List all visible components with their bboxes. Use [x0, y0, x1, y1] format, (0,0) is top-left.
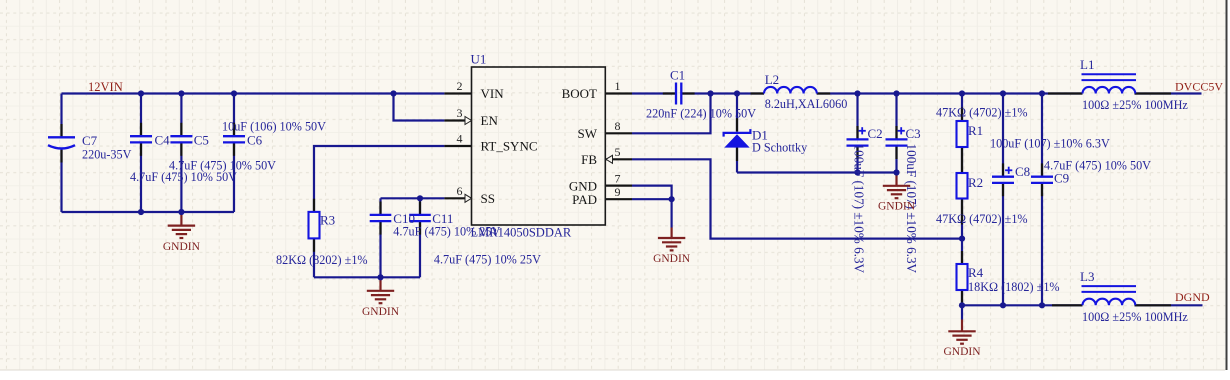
svg-text:C7: C7	[82, 133, 98, 148]
svg-text:C3: C3	[906, 126, 921, 141]
pin U1 BOOT 1	[605, 92, 632, 94]
svg-text:GNDIN: GNDIN	[653, 253, 691, 265]
resistor R2	[957, 173, 968, 199]
svg-text:6: 6	[457, 184, 463, 198]
pin U1 SS 6	[444, 197, 471, 199]
resistor R1	[957, 121, 968, 147]
wire C7 bottom drop	[60, 150, 62, 213]
wire C6 bottom drop	[233, 142, 235, 212]
pin U1 VIN 2	[444, 92, 471, 94]
capacitor C11	[409, 215, 431, 221]
wire PAD pin 9 run	[632, 198, 672, 200]
capacitor C8	[992, 177, 1014, 183]
capacitor C2 plus mark	[859, 127, 866, 134]
pin D1 cathode	[736, 118, 738, 131]
svg-text:FB: FB	[581, 152, 597, 167]
wire C10 top	[379, 198, 381, 214]
svg-text:9: 9	[615, 185, 621, 199]
pin C5 bottom	[180, 142, 182, 155]
svg-text:4.7uF (475) 10% 50V: 4.7uF (475) 10% 50V	[130, 170, 237, 184]
junction R3 ground	[377, 274, 383, 280]
op-amp U1 body	[472, 67, 606, 225]
capacitor C8 plus mark	[1005, 167, 1012, 174]
pin U1 PAD 9	[605, 198, 632, 200]
wire R3 bottom	[313, 238, 315, 277]
junction top rail C4	[138, 90, 144, 96]
ground GNDIN below C3	[883, 186, 910, 198]
wire C11 top	[419, 198, 421, 214]
svg-text:220u-35V: 220u-35V	[82, 148, 132, 162]
wire C9 bottom drop	[1041, 183, 1043, 305]
junction D1 node	[734, 90, 740, 96]
svg-text:DGND: DGND	[1175, 290, 1210, 304]
wire C4 top drop	[140, 94, 142, 137]
pin L3 left	[1052, 304, 1083, 306]
junction top rail C3	[893, 90, 899, 96]
wire C5 top drop	[180, 94, 182, 137]
svg-text:D Schottky: D Schottky	[752, 141, 808, 155]
pin C6 top	[233, 123, 235, 136]
junction C2 ground	[854, 169, 860, 175]
pin C8 bottom	[1002, 183, 1004, 196]
wire EN branch	[394, 94, 445, 121]
pin L2 left	[751, 92, 765, 94]
svg-text:C9: C9	[1054, 171, 1069, 186]
svg-text:R4: R4	[968, 265, 984, 280]
wire D1 ground rail	[737, 171, 897, 173]
pin C4 bottom	[140, 142, 142, 155]
pin R3 bottom	[313, 238, 315, 251]
ground stem GNDIN R4	[961, 320, 963, 332]
svg-text:C4: C4	[155, 133, 171, 148]
pin U1 GND 7	[605, 185, 632, 187]
wire L3 to DGND	[1135, 304, 1203, 306]
wire SS	[381, 197, 445, 199]
junction top rail R1	[959, 90, 965, 96]
svg-text:GNDIN: GNDIN	[362, 306, 400, 318]
wire C4 bottom drop	[140, 142, 142, 212]
capacitor C5	[170, 136, 192, 142]
wire C5 bottom drop	[180, 142, 182, 212]
svg-text:1: 1	[615, 79, 621, 93]
ground GNDIN below U1	[658, 238, 685, 250]
wire FB run	[632, 159, 962, 238]
wire C1 to SW node	[681, 92, 764, 94]
capacitor C3 plus mark	[898, 127, 905, 134]
wire ground stub R4	[961, 305, 963, 319]
wire R4 bottom	[961, 290, 963, 305]
diode D1	[724, 129, 751, 148]
junction top rail EN	[390, 90, 396, 96]
wire D1 top branch	[736, 94, 738, 132]
svg-text:DVCC5V: DVCC5V	[1175, 80, 1223, 94]
pin R3 top	[313, 199, 315, 212]
svg-text:C5: C5	[194, 133, 209, 148]
pin C8 top	[1002, 163, 1004, 176]
junction C3 ground	[893, 169, 899, 175]
pin U1 FB 5	[605, 158, 632, 160]
ground stem GNDIN C3	[895, 173, 897, 186]
svg-text:SS: SS	[481, 191, 495, 206]
pin C4 top	[140, 123, 142, 136]
junction SS C11	[417, 195, 423, 201]
svg-text:L3: L3	[1080, 269, 1094, 284]
svg-text:GNDIN: GNDIN	[943, 346, 981, 358]
svg-text:5: 5	[615, 145, 621, 159]
junction bottom rail C9	[1039, 302, 1045, 308]
pin C9 bottom	[1041, 183, 1043, 196]
pin EN input arrow	[465, 117, 472, 125]
capacitor C9	[1031, 177, 1053, 183]
pin C5 top	[180, 123, 182, 136]
svg-text:100Ω ±25% 100MHz: 100Ω ±25% 100MHz	[1082, 310, 1188, 324]
capacitor C6	[223, 136, 245, 142]
ferrite bead L3 coil	[1083, 299, 1136, 306]
svg-text:8: 8	[615, 119, 621, 133]
junction SW node	[707, 90, 713, 96]
wire R2 to R4	[961, 199, 963, 265]
capacitor C2	[847, 139, 869, 145]
capacitor C10	[370, 215, 392, 221]
wire C9 top drop	[1041, 94, 1043, 177]
junction PAD	[669, 196, 675, 202]
svg-text:4: 4	[457, 132, 463, 146]
pin C3 bottom	[895, 146, 897, 159]
ground stem GNDIN R3	[379, 277, 381, 291]
pin C6 bottom	[233, 142, 235, 155]
pin L1 right	[1135, 92, 1172, 94]
pin U1 EN 3	[444, 119, 471, 121]
wire PAD to ground	[670, 199, 672, 227]
ground stem GNDIN left	[180, 212, 182, 226]
wire C6 top drop	[233, 94, 235, 137]
ferrite bead L3 core bars	[1082, 286, 1137, 292]
junction bottom rail R4	[959, 302, 965, 308]
svg-text:12VIN: 12VIN	[88, 80, 123, 94]
resistor R3	[309, 212, 320, 239]
wire SW pin run	[632, 94, 711, 134]
svg-text:R3: R3	[320, 213, 335, 228]
pin U1 RT_SYNC 4	[444, 145, 471, 147]
pin R1 top	[961, 108, 963, 122]
wire GND pin 7 jog	[632, 186, 672, 200]
pin C9 top	[1041, 163, 1043, 176]
wire C8 bottom drop	[1002, 183, 1004, 305]
svg-text:7: 7	[615, 171, 621, 185]
svg-text:R1: R1	[968, 123, 983, 138]
pin C3 top	[895, 126, 897, 139]
pin C11 bottom	[419, 221, 421, 234]
svg-text:RT_SYNC: RT_SYNC	[481, 139, 538, 154]
pin D1 anode	[736, 148, 738, 162]
svg-text:C1: C1	[670, 67, 685, 82]
pin C7 top	[60, 124, 62, 136]
wire GNDIN bottom rail left	[62, 211, 235, 213]
svg-text:GNDIN: GNDIN	[878, 201, 916, 213]
pin C10 top	[379, 202, 381, 215]
pin L2 right	[817, 92, 831, 94]
pin C2 bottom	[856, 146, 858, 159]
pin C11 top	[419, 202, 421, 215]
svg-text:47KΩ (4702) ±1%: 47KΩ (4702) ±1%	[936, 212, 1028, 226]
wire L1 to DVCC5V	[1135, 92, 1202, 94]
wire C3 top drop	[895, 94, 897, 140]
pin C2 top	[856, 126, 858, 139]
pin R2 top	[961, 161, 963, 174]
wire C11 bottom	[419, 221, 421, 277]
wire RT_SYNC to R3	[314, 146, 444, 212]
pin R4 bottom	[961, 290, 963, 305]
svg-text:C2: C2	[868, 126, 883, 141]
svg-text:VIN: VIN	[481, 86, 505, 101]
ground GNDIN left	[168, 226, 195, 238]
junction top rail C5	[178, 90, 184, 96]
wire BOOT to C1	[632, 92, 676, 94]
pin SS input arrow	[465, 194, 472, 202]
svg-text:R2: R2	[968, 175, 983, 190]
capacitor C3	[886, 139, 908, 145]
svg-text:4.7uF (475) 10% 25V: 4.7uF (475) 10% 25V	[393, 225, 500, 239]
wire C2 bottom drop	[856, 146, 858, 173]
pin L1 left	[1048, 92, 1083, 94]
ground stem GNDIN U1 pad	[670, 228, 672, 239]
svg-text:3: 3	[457, 106, 463, 120]
wire R3 ground rail	[314, 276, 420, 278]
pin C10 bottom	[379, 221, 381, 234]
wire R1-R2 link	[961, 147, 963, 173]
svg-text:18KΩ (1802) ±1%: 18KΩ (1802) ±1%	[968, 280, 1060, 294]
pin C1 left	[663, 92, 676, 94]
pin U1 SW 8	[605, 132, 632, 134]
capacitor C7	[48, 137, 75, 148]
svg-text:4.7uF (475) 10% 50V: 4.7uF (475) 10% 50V	[1044, 159, 1151, 173]
wire R1 top	[961, 94, 963, 122]
wire C3 bottom drop	[895, 146, 897, 173]
junction bottom rail C4	[138, 209, 144, 215]
svg-text:47KΩ (4702) ±1%: 47KΩ (4702) ±1%	[936, 106, 1028, 120]
pin R2 bottom	[961, 199, 963, 225]
capacitor C1	[676, 83, 681, 105]
resistor R4	[957, 264, 968, 290]
svg-text:C6: C6	[247, 133, 263, 148]
pin C1 right	[681, 92, 694, 94]
wire C2 top drop	[856, 94, 858, 140]
pin FB input arrow	[606, 155, 613, 163]
ferrite bead L1 core bars	[1082, 74, 1137, 80]
junction top rail C9	[1039, 90, 1045, 96]
wire L2 to L1 rail	[817, 92, 1083, 94]
wire D1 anode drop	[736, 148, 738, 173]
junction top rail C6	[231, 90, 237, 96]
svg-text:EN: EN	[481, 113, 499, 128]
svg-text:L1: L1	[1080, 57, 1094, 72]
svg-text:U1: U1	[471, 52, 487, 67]
svg-text:L2: L2	[765, 72, 779, 87]
pin R1 bottom	[961, 147, 963, 161]
pin L3 right	[1135, 304, 1172, 306]
svg-text:220nF (224) 10% 50V: 220nF (224) 10% 50V	[646, 107, 756, 121]
junction top rail C2	[854, 90, 860, 96]
svg-text:82KΩ (8202) ±1%: 82KΩ (8202) ±1%	[276, 253, 368, 267]
sheet bottom edge	[0, 369, 1225, 371]
junction bottom rail C8	[1000, 302, 1006, 308]
capacitor C4	[130, 136, 152, 142]
svg-text:BOOT: BOOT	[562, 86, 597, 101]
svg-text:8.2uH,XAL6060: 8.2uH,XAL6060	[765, 97, 848, 111]
wire 12VIN top rail	[62, 92, 445, 94]
wire bottom right rail	[962, 304, 1083, 306]
svg-text:PAD: PAD	[572, 192, 597, 207]
junction FB divider	[959, 236, 965, 242]
svg-text:100uF (107) ±10% 6.3V: 100uF (107) ±10% 6.3V	[852, 144, 867, 274]
junction top rail C8	[1000, 90, 1006, 96]
wire C10 bottom	[379, 221, 381, 277]
inductor L2 coil	[764, 87, 817, 94]
pin R4 top	[961, 251, 963, 264]
ground GNDIN below C10	[367, 291, 394, 303]
svg-text:C8: C8	[1015, 164, 1030, 179]
svg-text:2: 2	[457, 79, 463, 93]
svg-text:GNDIN: GNDIN	[163, 241, 201, 253]
ferrite bead L1 coil	[1083, 87, 1136, 94]
svg-text:100Ω ±25% 100MHz: 100Ω ±25% 100MHz	[1082, 98, 1188, 112]
wire C8 top drop	[1002, 94, 1004, 177]
svg-text:100uF (107) ±10% 6.3V: 100uF (107) ±10% 6.3V	[990, 137, 1110, 151]
sheet border right	[1226, 0, 1228, 370]
pin C7 bottom	[60, 150, 62, 163]
wire C7 left drop	[60, 94, 62, 138]
svg-text:SW: SW	[578, 126, 598, 141]
junction bottom rail C5	[178, 209, 184, 215]
ground GNDIN below R4	[948, 331, 975, 343]
svg-text:4.7uF (475) 10% 25V: 4.7uF (475) 10% 25V	[434, 253, 541, 267]
svg-text:10uF (106) 10% 50V: 10uF (106) 10% 50V	[222, 120, 326, 134]
